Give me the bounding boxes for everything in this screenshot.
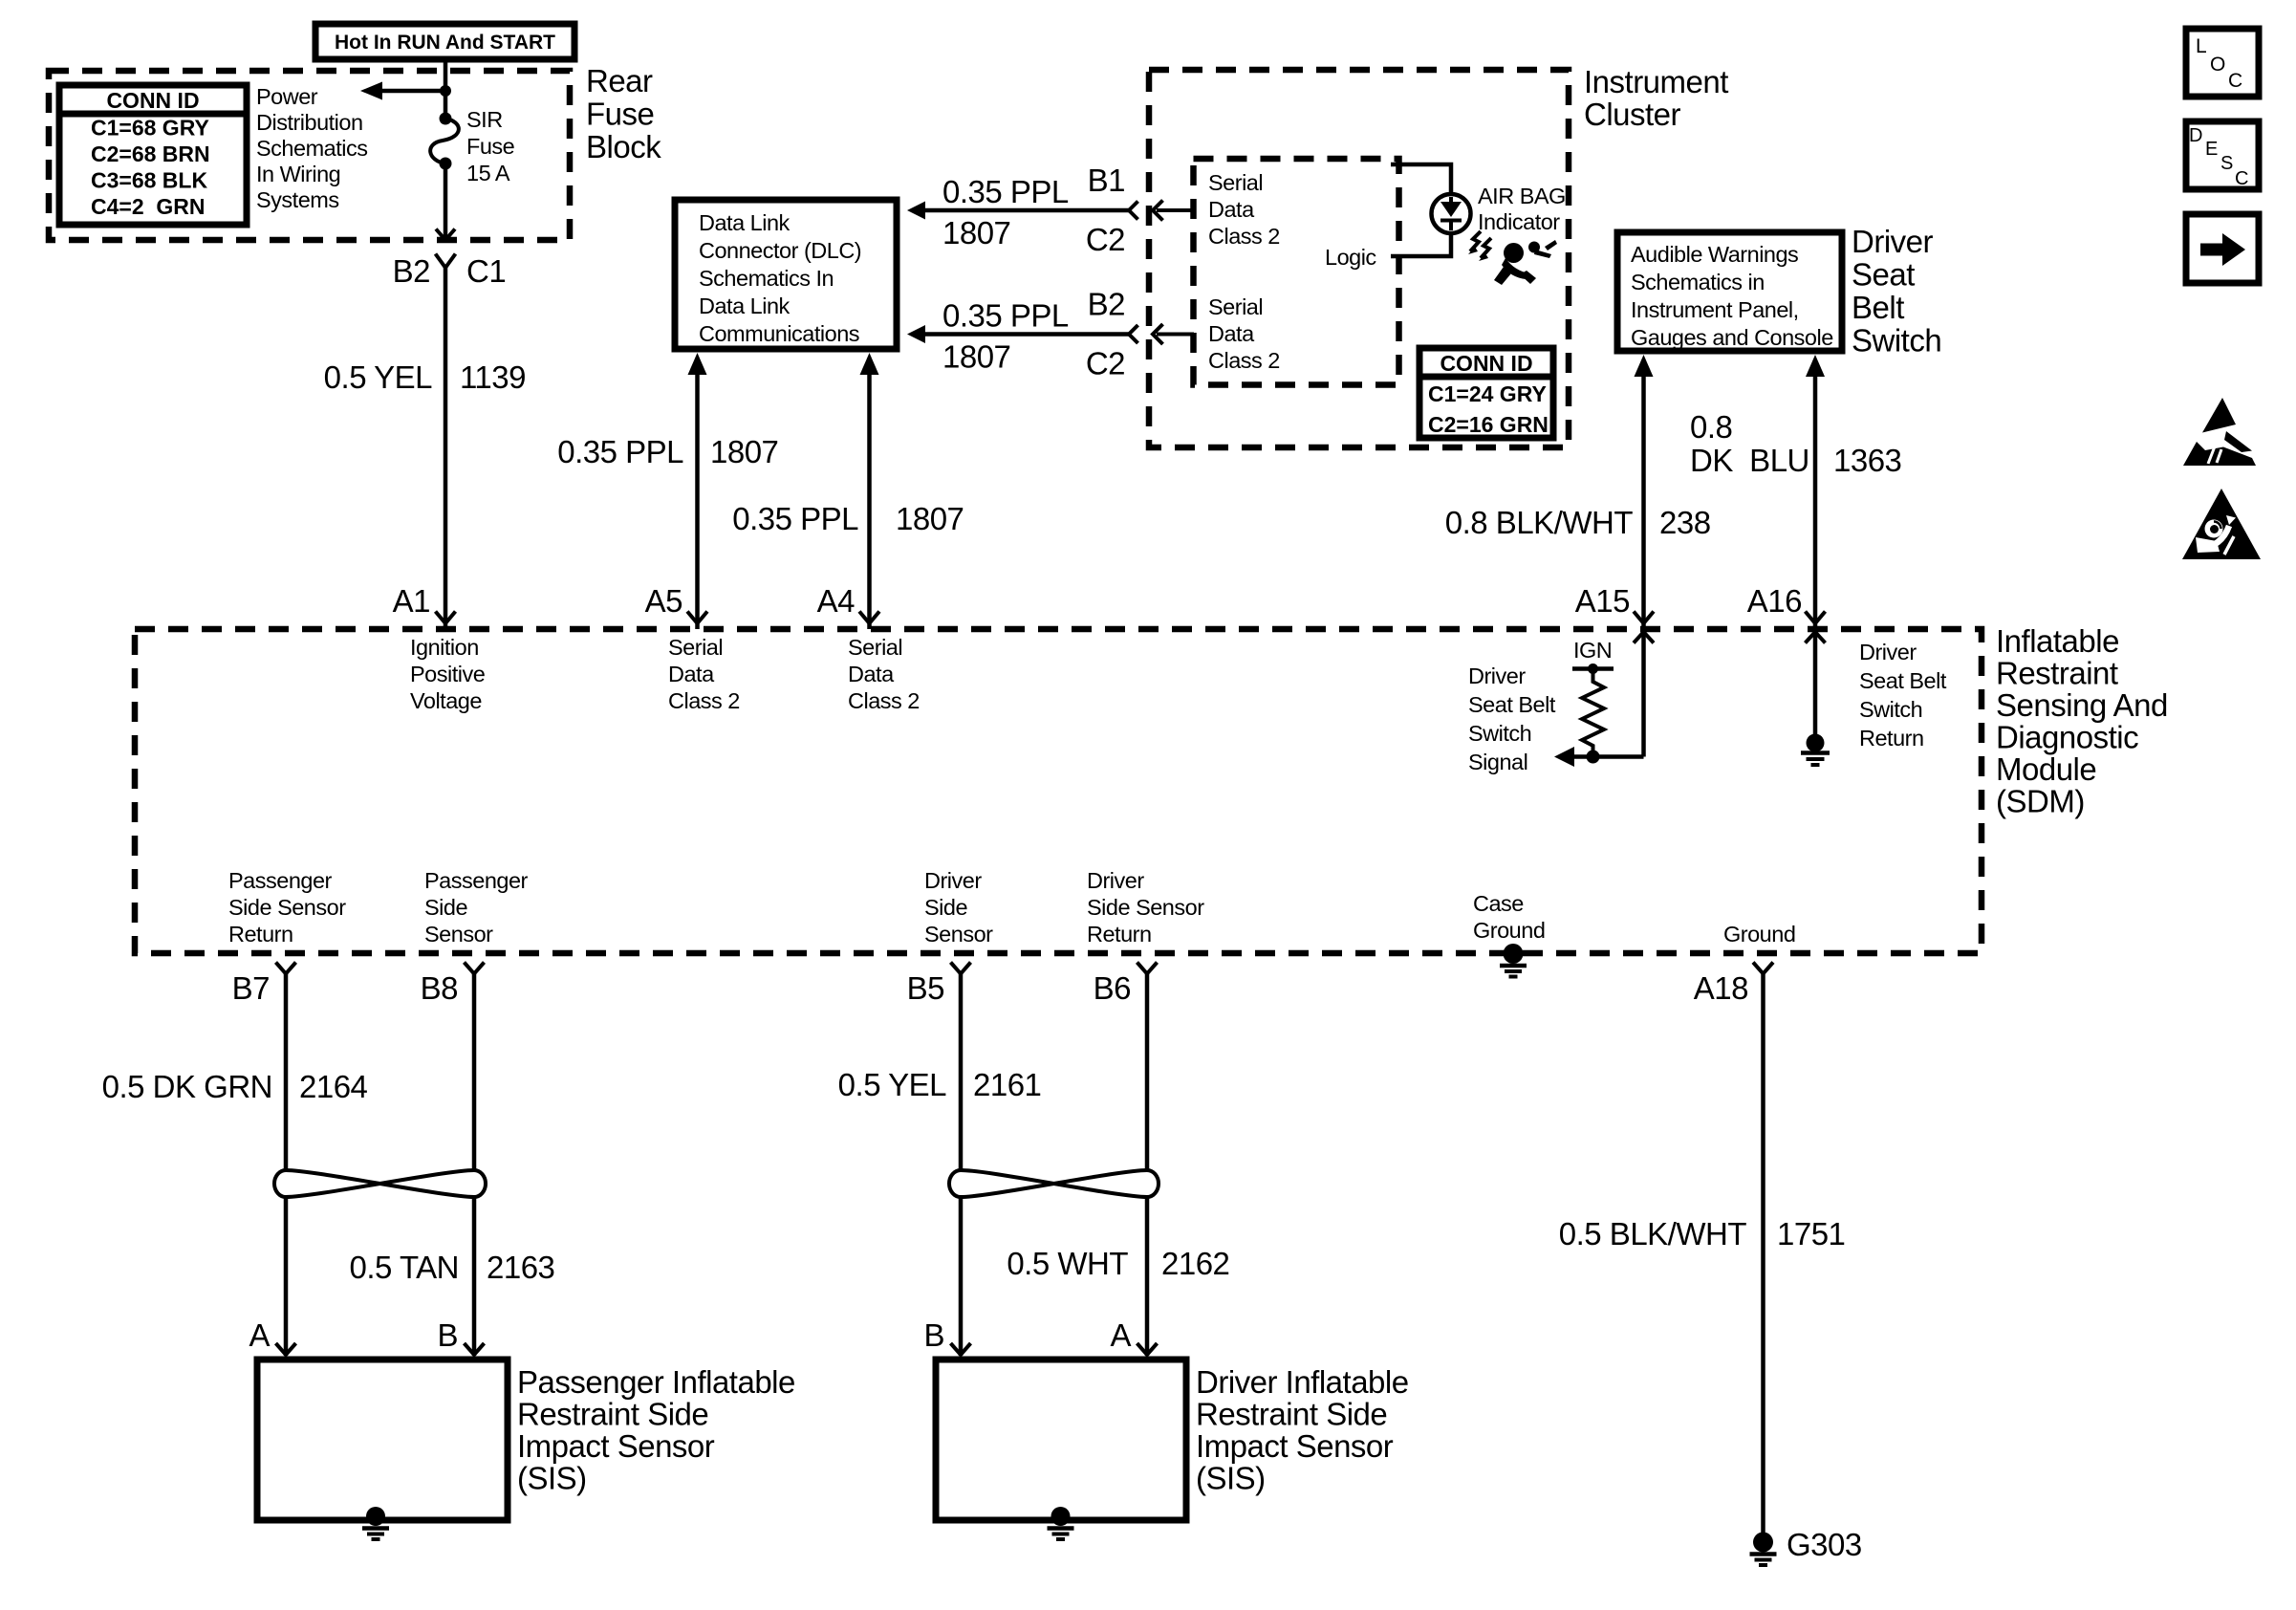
svg-text:C1=24 GRY: C1=24 GRY <box>1428 381 1547 406</box>
instrument cluster dashed box <box>1149 70 1569 447</box>
icon LOC box <box>2186 29 2259 97</box>
wire 2163 (0.5 TAN) B8 lower <box>472 1196 477 1356</box>
svg-text:C1: C1 <box>466 253 506 289</box>
icon ESD warning triangle <box>2183 398 2256 466</box>
svg-text:O: O <box>2210 54 2225 76</box>
svg-text:B: B <box>923 1317 944 1353</box>
wire 1807 A4 to DLC <box>860 353 879 375</box>
svg-text:C2: C2 <box>1086 222 1125 257</box>
wire B7 lower segment <box>284 1196 289 1356</box>
twisted pair (passenger SIS) <box>274 1170 486 1197</box>
logic inner dashed box <box>1194 159 1399 385</box>
pin B (driver SIS) <box>951 1343 971 1355</box>
pin B6 <box>1137 963 1158 974</box>
svg-text:B7: B7 <box>232 970 270 1006</box>
svg-text:Hot In RUN And START: Hot In RUN And START <box>335 32 555 54</box>
pin A18 <box>1753 963 1773 974</box>
svg-text:0.5 YEL: 0.5 YEL <box>838 1067 946 1102</box>
rear fuse block dashed box <box>49 71 570 240</box>
svg-text:1807: 1807 <box>896 501 964 536</box>
svg-text:2161: 2161 <box>973 1067 1041 1102</box>
A15 internal arrow <box>1554 632 1654 767</box>
wire 238 (A15 to audible warnings) <box>1635 355 1654 377</box>
svg-text:C2=16 GRN: C2=16 GRN <box>1428 412 1549 437</box>
ground (passenger SIS) <box>362 1507 389 1539</box>
box: Data Link Connector (DLC) <box>675 200 897 349</box>
svg-text:0.35 PPL: 0.35 PPL <box>732 501 858 536</box>
wire 1139 (0.5 YEL) down to SDM A1 <box>444 266 448 629</box>
pin B (passenger SIS) <box>465 1343 485 1355</box>
case ground <box>1473 891 1545 977</box>
resistor (seat belt switch pull-up) <box>1582 669 1604 757</box>
svg-text:2163: 2163 <box>487 1250 554 1285</box>
svg-text:1807: 1807 <box>710 434 778 469</box>
svg-text:A4: A4 <box>817 583 856 619</box>
pin A (driver SIS) <box>1137 1343 1158 1355</box>
svg-text:RearFuseBlock: RearFuseBlock <box>586 63 661 164</box>
svg-text:2164: 2164 <box>299 1069 368 1104</box>
svg-text:AIR BAG: AIR BAG <box>1478 184 1566 208</box>
svg-text:B: B <box>437 1317 458 1353</box>
svg-text:C: C <box>2235 168 2248 189</box>
svg-text:1363: 1363 <box>1833 443 1901 478</box>
wire B8 upper segment <box>472 974 477 1172</box>
fuse SIR Fuse 15 A <box>430 107 515 185</box>
svg-text:C1=68 GRY: C1=68 GRY <box>91 116 209 141</box>
pin A5 connector <box>687 612 707 624</box>
svg-text:B6: B6 <box>1094 970 1131 1006</box>
svg-text:1807: 1807 <box>942 339 1010 375</box>
airbag SIR icon (occupant with bag) <box>1494 240 1557 285</box>
LED emission flashes <box>1468 231 1491 261</box>
svg-text:IGN: IGN <box>1573 638 1612 663</box>
LED airbag indicator lamp <box>1432 194 1471 233</box>
svg-text:0.5 TAN: 0.5 TAN <box>350 1250 460 1285</box>
icon forward arrow box <box>2186 214 2259 283</box>
wire logic to LED bottom <box>1391 234 1451 256</box>
pin A1 connector <box>436 612 456 624</box>
svg-text:1751: 1751 <box>1777 1216 1845 1251</box>
wire from hot box down <box>444 59 448 119</box>
svg-text:0.35 PPL: 0.35 PPL <box>942 174 1069 209</box>
svg-text:DK BLU: DK BLU <box>1690 443 1809 478</box>
svg-text:1139: 1139 <box>460 359 526 395</box>
box: Driver SIS <box>936 1360 1186 1520</box>
pin A (passenger SIS) <box>276 1343 296 1355</box>
svg-text:C2=68 BRN: C2=68 BRN <box>91 141 210 166</box>
box: Passenger SIS <box>257 1360 508 1520</box>
svg-text:B2: B2 <box>393 253 430 289</box>
svg-text:A15: A15 <box>1575 583 1630 619</box>
svg-text:B2: B2 <box>1088 287 1125 322</box>
svg-text:B1: B1 <box>1088 163 1125 198</box>
connector Y B2/C1 <box>436 254 456 269</box>
svg-text:A5: A5 <box>645 583 682 619</box>
wire: branch arrow to power distribution <box>380 89 445 94</box>
wire from fuse to block edge with open arrow <box>444 163 448 239</box>
svg-text:G303: G303 <box>1787 1527 1862 1562</box>
pin B5 <box>951 963 971 974</box>
svg-text:0.8: 0.8 <box>1690 409 1732 445</box>
svg-text:A16: A16 <box>1747 583 1802 619</box>
IGN feed bar <box>1572 666 1614 671</box>
svg-text:C2: C2 <box>1086 346 1125 381</box>
svg-text:S: S <box>2220 153 2233 174</box>
pin A4 connector <box>859 612 879 624</box>
power label box "Hot In RUN And START" <box>315 24 574 59</box>
svg-text:0.5 BLK/WHT: 0.5 BLK/WHT <box>1559 1216 1747 1251</box>
ground (driver SIS) <box>1048 1507 1074 1539</box>
svg-text:C: C <box>2228 70 2242 92</box>
svg-text:A: A <box>249 1317 270 1353</box>
svg-text:Ground: Ground <box>1723 922 1795 946</box>
wire 1363 (A16 to seat belt switch) <box>1806 355 1825 377</box>
SDM dashed box <box>135 629 1982 953</box>
svg-text:0.5 YEL: 0.5 YEL <box>324 359 432 395</box>
svg-text:D: D <box>2189 125 2202 146</box>
svg-text:1807: 1807 <box>942 215 1010 250</box>
svg-text:A1: A1 <box>393 583 430 619</box>
icon SIR airbag triangle <box>2182 489 2261 559</box>
wire 2164 (0.5 DK GRN) B7 upper <box>284 974 289 1172</box>
svg-text:C3=68 BLK: C3=68 BLK <box>91 168 207 193</box>
svg-text:L: L <box>2196 35 2207 57</box>
svg-text:C4=2 GRN: C4=2 GRN <box>91 194 206 219</box>
svg-text:CONN ID: CONN ID <box>1440 351 1532 376</box>
ground G303 <box>1750 1527 1862 1565</box>
connector ID table (rear fuse block) <box>59 85 247 225</box>
svg-text:Indicator: Indicator <box>1478 209 1560 234</box>
wire B5 lower segment <box>959 1196 964 1356</box>
svg-text:B5: B5 <box>907 970 944 1006</box>
wire B6 upper segment <box>1145 974 1150 1172</box>
wire logic to LED top <box>1391 164 1451 193</box>
pin B7 <box>276 963 296 974</box>
icon DESC box <box>2186 121 2259 189</box>
node: junction dot at branch <box>440 85 451 97</box>
twisted pair (driver SIS) <box>949 1170 1159 1197</box>
svg-text:0.35 PPL: 0.35 PPL <box>942 298 1069 334</box>
wire 2162 (0.5 WHT) B6 lower <box>1145 1196 1150 1356</box>
connector ID table (instrument cluster) <box>1419 348 1553 438</box>
pin B8 <box>465 963 485 974</box>
A16 internal wire to case ground <box>1801 632 1830 765</box>
svg-text:0.8 BLK/WHT: 0.8 BLK/WHT <box>1445 505 1634 540</box>
box: Audible Warnings <box>1617 232 1842 351</box>
svg-text:CONN ID: CONN ID <box>106 88 199 113</box>
svg-text:B8: B8 <box>421 970 458 1006</box>
wire 1807 A5 to DLC <box>688 353 707 375</box>
wire 1751 (0.5 BLK/WHT) to G303 <box>1761 974 1765 1535</box>
wire 1807 serial data B1 to DLC <box>907 163 1194 257</box>
svg-text:0.5 WHT: 0.5 WHT <box>1007 1246 1128 1281</box>
svg-text:A: A <box>1110 1317 1131 1353</box>
svg-text:2162: 2162 <box>1161 1246 1229 1281</box>
wire 1807 serial data B2 to DLC <box>907 287 1194 381</box>
svg-text:0.35 PPL: 0.35 PPL <box>557 434 683 469</box>
svg-text:IgnitionPositiveVoltage: IgnitionPositiveVoltage <box>410 635 486 713</box>
svg-text:E: E <box>2205 139 2218 160</box>
svg-text:Logic: Logic <box>1325 245 1376 270</box>
wire 2161 (0.5 YEL) B5 upper <box>959 974 964 1172</box>
svg-text:A18: A18 <box>1694 970 1748 1006</box>
svg-text:238: 238 <box>1659 505 1711 540</box>
svg-text:0.5 DK GRN: 0.5 DK GRN <box>102 1069 272 1104</box>
